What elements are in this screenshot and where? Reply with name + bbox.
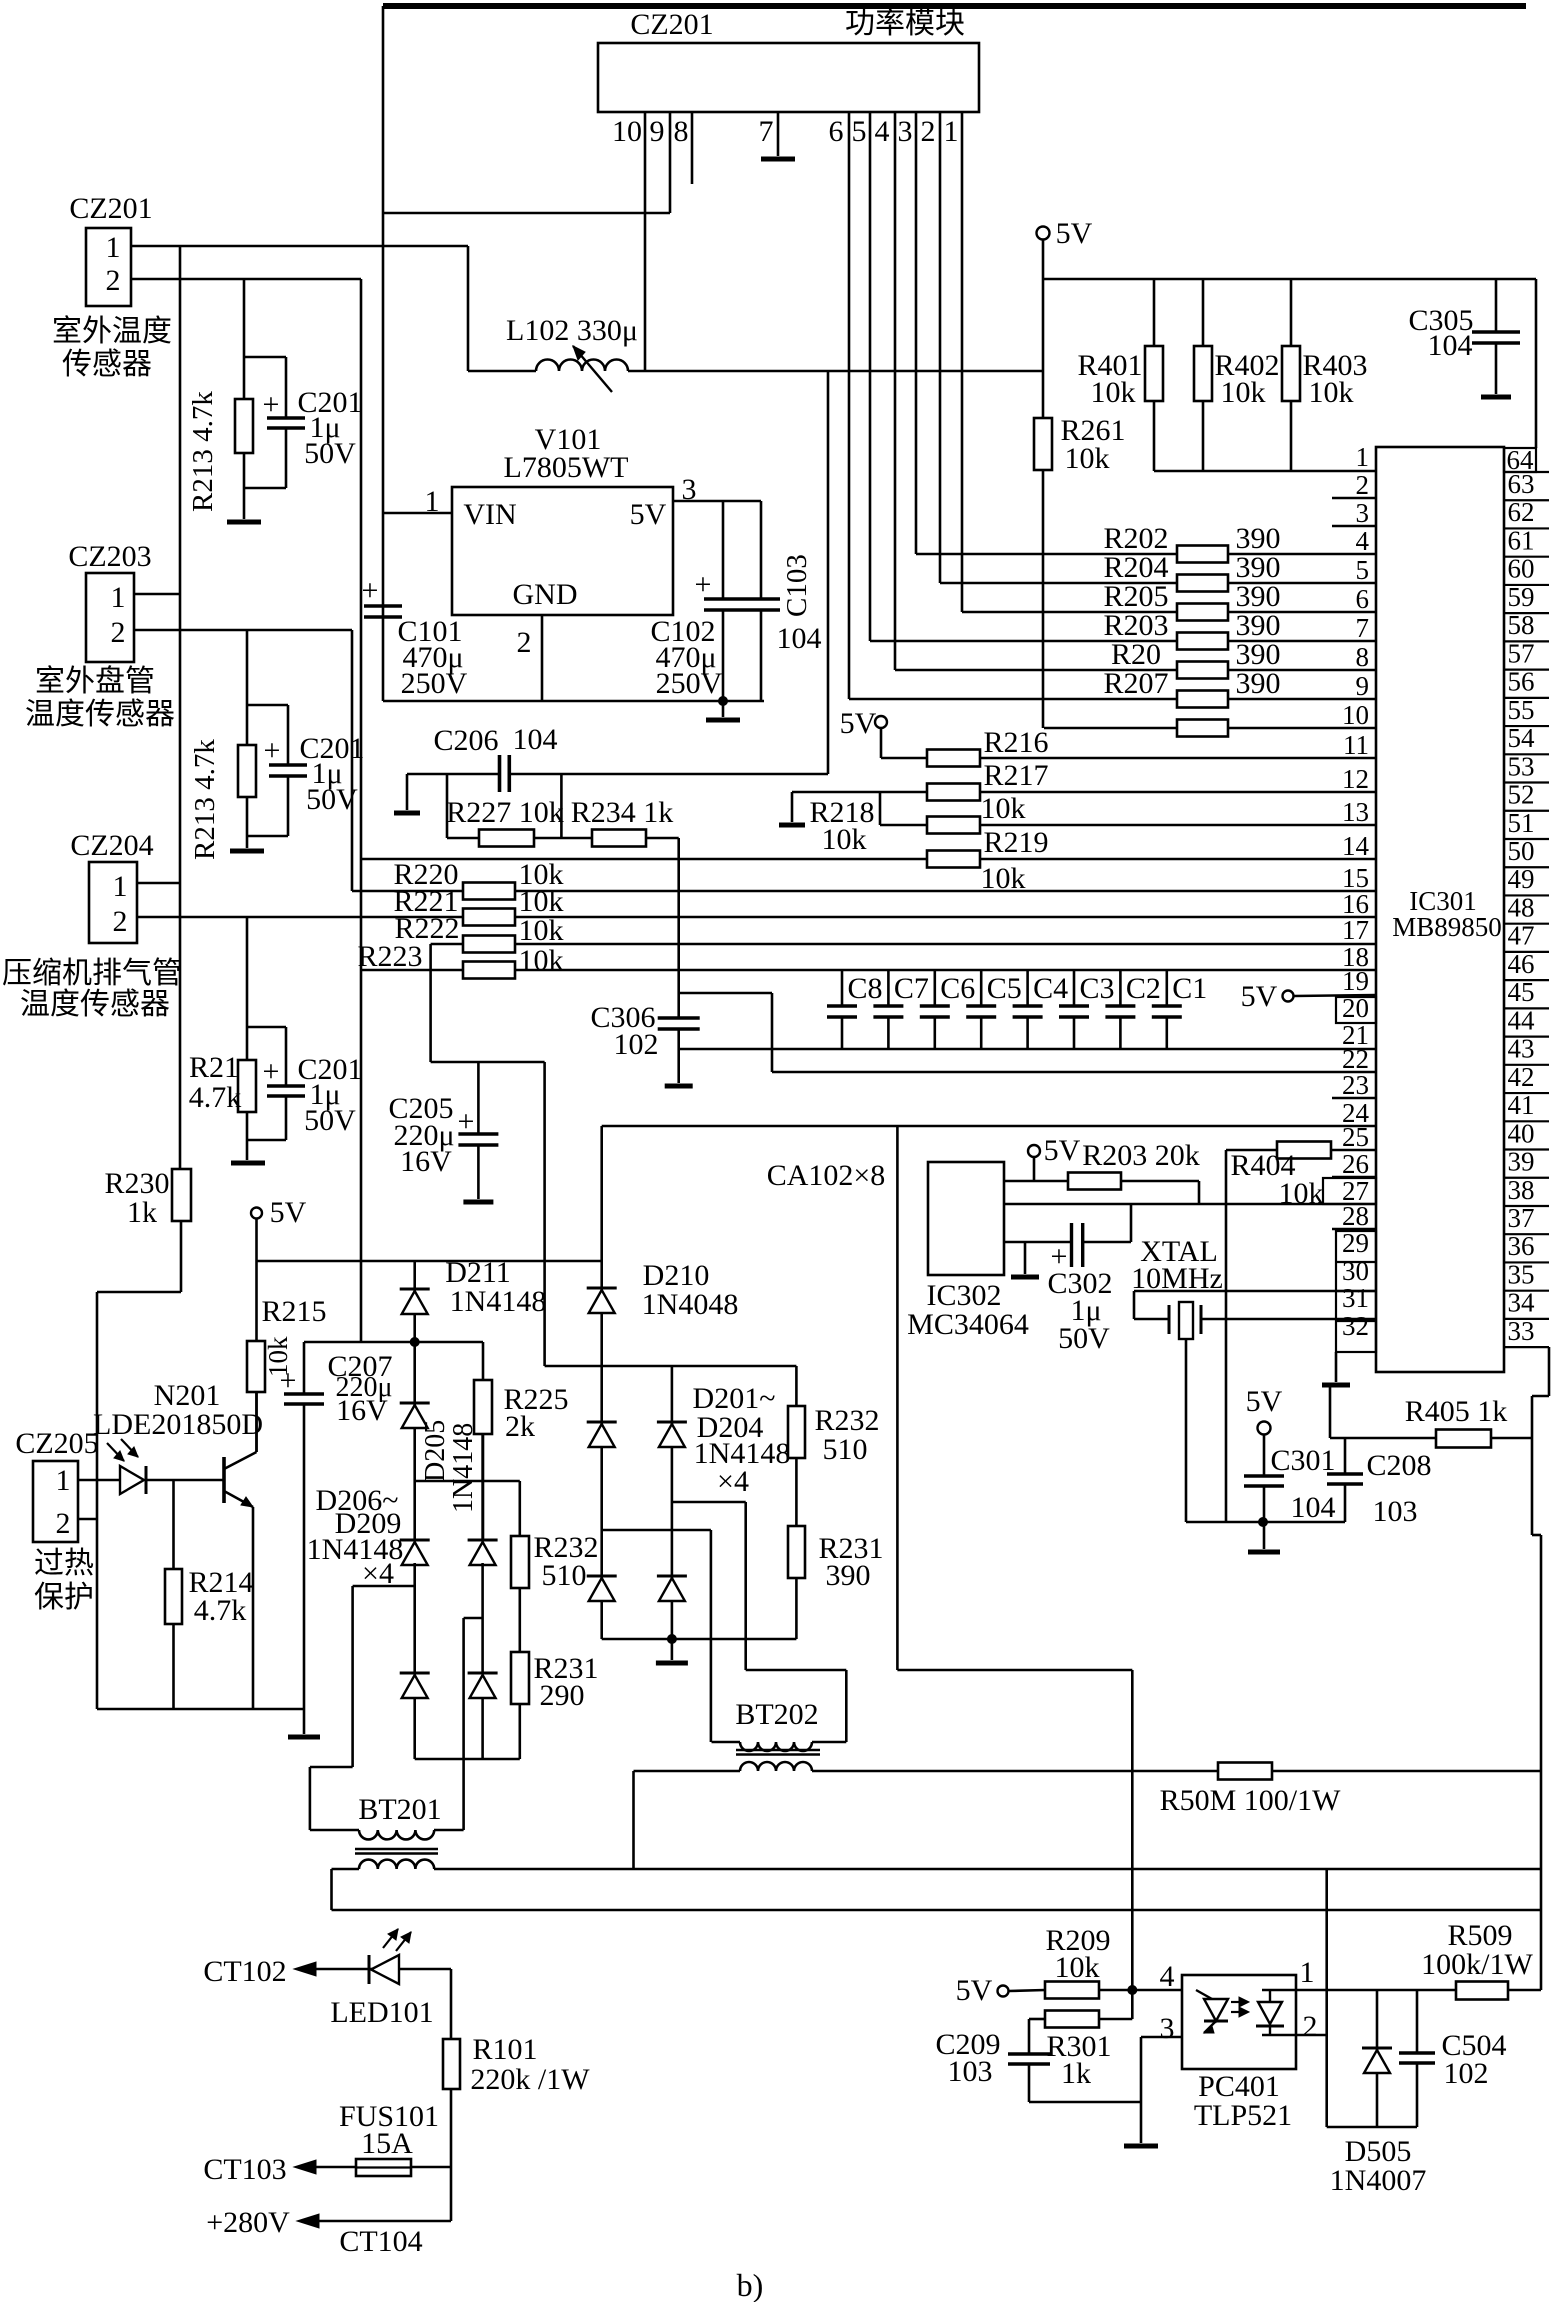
resistor R50M 100/1W (1218, 1763, 1541, 1780)
wire H1 colR2 to BT202 primary right (672, 1502, 846, 1742)
plus sign C207 (280, 1364, 297, 1397)
label R21 4.7k (189, 1051, 242, 1114)
resistor R232 510 (left) (511, 1481, 529, 1652)
resistor R222 10k (431, 936, 1376, 953)
wire 5V rail to D210 (257, 1260, 602, 1263)
connector CZ205 overheat (33, 1461, 78, 1542)
svg-text:28: 28 (1342, 1201, 1369, 1231)
resistor R219 10k long row from CZ201 pin2 (361, 851, 1376, 868)
svg-text:VIN: VIN (463, 498, 516, 531)
label C205 220u 16V (388, 1092, 454, 1178)
svg-text:+: + (362, 574, 379, 607)
svg-text:2: 2 (56, 1507, 71, 1540)
diode D208 (col1 row2) (400, 1673, 430, 1759)
wire CZ205 pin2 down (78, 1518, 97, 1521)
wire CZ201 pin1 to L102 drop (131, 245, 468, 248)
label R234 1k (571, 796, 674, 829)
svg-text:12: 12 (1342, 764, 1369, 794)
plus sign C101 (362, 574, 379, 607)
svg-text:10k: 10k (981, 792, 1026, 825)
label C207 220u 16V (327, 1350, 392, 1427)
crystal XTAL wires (1134, 1291, 1376, 1319)
resistor R217 (792, 784, 1376, 801)
resistor R232 510 (right) (788, 1366, 805, 1526)
wire 5V bus to pin64 (1043, 279, 1536, 448)
wire C207 top rail to R225 (304, 1341, 483, 1344)
svg-text:2: 2 (517, 626, 532, 659)
ground IC301 pin 29-32 block (1322, 1352, 1350, 1385)
svg-text:52: 52 (1508, 780, 1535, 810)
svg-text:104: 104 (1291, 1491, 1336, 1524)
wire PC401 pin3 ground (1141, 2037, 1182, 2143)
diode D204 (colR2 rowB) (657, 1576, 687, 1601)
svg-text:37: 37 (1508, 1203, 1535, 1233)
label R509 100k/1W (1421, 1919, 1533, 1981)
photodiode N201 LED with arrows (78, 1439, 224, 1494)
svg-text:R223: R223 (357, 940, 422, 973)
svg-text:5: 5 (1356, 555, 1370, 585)
resistor R209 10k (1045, 1982, 1182, 1999)
diode D505 1N4007 (1362, 1990, 1392, 2127)
svg-text:45: 45 (1508, 977, 1535, 1007)
wire pin10 of CZ201 to L102 node (644, 112, 647, 371)
wire BT201 secondary rail (434, 1868, 1541, 1871)
svg-text:104: 104 (513, 723, 558, 756)
crystal XTAL symbol (1169, 1302, 1201, 1522)
svg-text:C6: C6 (940, 972, 975, 1005)
svg-text:102: 102 (1444, 2057, 1489, 2090)
wire PC401 pin1 to R509 (1296, 1989, 1456, 1992)
label R402 10k (1214, 349, 1279, 409)
svg-text:保护: 保护 (34, 1581, 94, 1614)
svg-text:GND: GND (513, 578, 578, 611)
svg-text:C5: C5 (987, 972, 1022, 1005)
label +280V CT104 with arrow (206, 2206, 451, 2258)
svg-text:34: 34 (1508, 1288, 1536, 1318)
ground C305 (1481, 395, 1511, 400)
svg-text:6: 6 (829, 115, 844, 148)
svg-text:10k: 10k (1309, 376, 1354, 409)
svg-text:38: 38 (1508, 1175, 1535, 1205)
resistor R231 290 (left) (511, 1652, 529, 1759)
svg-text:50V: 50V (306, 783, 358, 816)
terminal 5V C301 (1246, 1385, 1283, 1476)
svg-text:4.7k: 4.7k (194, 1594, 247, 1627)
label R219 10k (981, 826, 1049, 895)
wire pin2 to R204 row (940, 112, 1177, 583)
capacitor C306 102 (658, 838, 700, 1083)
svg-text:4: 4 (1356, 526, 1370, 556)
svg-text:250V: 250V (656, 667, 723, 700)
resistor R215 10k (247, 1341, 265, 1452)
resistor R221 10k (463, 909, 1376, 926)
svg-text:+: + (263, 1055, 280, 1088)
capacitor C301 104 (1244, 1476, 1284, 1549)
svg-text:58: 58 (1508, 610, 1535, 640)
svg-text:50V: 50V (304, 437, 356, 470)
label CZ203 (68, 540, 151, 573)
ground C301 (1248, 1550, 1280, 1555)
svg-text:61: 61 (1508, 525, 1535, 555)
IC301 left pin stubs (1332, 498, 1376, 1229)
terminal 5V top (1037, 217, 1093, 279)
ground colR2 (656, 1639, 688, 1663)
label C208 103 (1366, 1449, 1431, 1528)
plus sign C205 (458, 1105, 475, 1138)
resistor R230 1k (97, 1169, 191, 1709)
svg-text:1N4048: 1N4048 (642, 1288, 739, 1321)
ground R21 (231, 1161, 265, 1166)
ground C306 (665, 1084, 693, 1089)
label C101 470u 250V (397, 615, 467, 700)
junction wire C206 to R227 right (560, 774, 563, 838)
label BT202 (735, 1698, 818, 1731)
wire pin24 row to diode column (602, 1125, 1376, 1128)
IC301 pin20 box (1336, 997, 1376, 1023)
wire tee D205 to R232 left group (415, 1480, 520, 1483)
svg-text:2: 2 (111, 616, 126, 649)
svg-text:36: 36 (1508, 1231, 1535, 1261)
plus sign C102 (695, 568, 712, 601)
svg-text:C8: C8 (847, 972, 882, 1005)
ground R213 upper (227, 520, 261, 525)
resistor R401 10k (1145, 279, 1163, 471)
label C201 middle values (299, 732, 364, 816)
label R209 10k (1045, 1924, 1110, 1984)
wire pin9 of CZ201 to left loop (383, 112, 670, 213)
plus sign C201 lower (263, 1055, 280, 1088)
svg-text:传感器: 传感器 (62, 348, 152, 381)
svg-text:29: 29 (1342, 1228, 1369, 1258)
capacitor C205 220u 16V (458, 1062, 498, 1199)
label C201 1u 50V upper (297, 386, 362, 470)
svg-text:59: 59 (1508, 582, 1535, 612)
label R215 10k rotated (261, 1295, 326, 1377)
svg-text:17: 17 (1342, 915, 1369, 945)
label R223 10k (357, 940, 563, 977)
svg-text:47: 47 (1508, 921, 1535, 951)
svg-text:R213 4.7k: R213 4.7k (187, 391, 219, 512)
svg-text:1k: 1k (1061, 2057, 1091, 2090)
label R401 10k (1077, 349, 1142, 409)
svg-text:1N4007: 1N4007 (1330, 2164, 1427, 2197)
svg-text:过热: 过热 (34, 1547, 94, 1580)
wire keyboard loop down to PC401 node (897, 1126, 1132, 1990)
label C206 104 (433, 723, 557, 757)
wire IC302 pin3 with C302 (1004, 1204, 1131, 1242)
junction dot C102 ground (719, 697, 728, 706)
label R231 390 right (818, 1532, 883, 1592)
terminal 5V IC302 (1028, 1134, 1081, 1181)
svg-text:60: 60 (1508, 554, 1535, 584)
resistor R213 4.7k (middle) (238, 630, 256, 848)
resistor R231 390 (right) (788, 1526, 805, 1639)
label R101 220k/1W (470, 2033, 590, 2096)
resistor R301 1k (1029, 1990, 1132, 2028)
svg-text:102: 102 (614, 1028, 659, 1061)
svg-text:390: 390 (1236, 667, 1281, 700)
connector CZ204 compressor exhaust temp sensor (89, 862, 137, 943)
label R232 510 left (533, 1531, 598, 1592)
svg-text:D205: D205 (420, 1420, 451, 1482)
plus sign C201 middle (264, 734, 281, 767)
label 室外盘管 温度传感器 (25, 665, 175, 731)
svg-text:1: 1 (106, 231, 121, 264)
capacitor C201 (middle) 1u 50V (247, 705, 307, 836)
svg-text:C7: C7 (894, 972, 929, 1005)
svg-text:+280V: +280V (206, 2206, 290, 2239)
diode D207 (col2 row1) (468, 1434, 498, 1673)
label CA102x8 (767, 1159, 886, 1192)
label CT102 with arrow (203, 1955, 451, 1988)
IC301 left pin numbers 1-32 (1342, 442, 1370, 1341)
pin numbers 10 9 8 7 6 5 4 3 2 1 of power module (612, 115, 959, 148)
svg-text:温度传感器: 温度传感器 (25, 698, 175, 731)
wire common sensor vertical x180 (179, 246, 182, 1169)
svg-text:8: 8 (674, 115, 689, 148)
capacitor C504 102 (1399, 1990, 1435, 2127)
svg-text:BT201: BT201 (358, 1793, 441, 1826)
svg-text:3: 3 (898, 115, 913, 148)
ground C206 left (394, 774, 420, 813)
capacitor C206 104 (407, 755, 828, 792)
svg-text:50: 50 (1508, 836, 1535, 866)
IC301 pin27 box (1323, 1178, 1376, 1204)
svg-text:1: 1 (944, 115, 959, 148)
label XTAL 10MHz (1131, 1235, 1223, 1295)
svg-text:+: + (280, 1364, 297, 1397)
svg-text:TLP521: TLP521 (1194, 2099, 1292, 2132)
svg-text:40: 40 (1508, 1118, 1535, 1148)
svg-text:15A: 15A (361, 2127, 413, 2160)
svg-text:R215: R215 (261, 1295, 326, 1328)
label b) (737, 2267, 764, 2302)
wire CZ204 pin2 = R221 row (137, 916, 463, 919)
label R301 1k (1046, 2030, 1111, 2090)
label R217 10k (981, 759, 1049, 825)
svg-text:R21: R21 (189, 1051, 239, 1084)
PC401 internal LED (1196, 1990, 1228, 2033)
label R50M 100/1W (1160, 1784, 1342, 1817)
ground R213 middle (230, 849, 264, 854)
wire branch col2 to BT201 primary right (464, 1618, 483, 1830)
label C504 102 (1441, 2029, 1506, 2090)
transformer BT202 (634, 1742, 1219, 1771)
resistor R405 1k (1330, 1387, 1532, 1448)
label R213 4.7k rotated middle (189, 739, 221, 860)
svg-text:1N4148: 1N4148 (448, 1423, 479, 1513)
svg-text:16V: 16V (400, 1145, 452, 1178)
wire pin8 stub (691, 112, 694, 184)
ground R217 left (779, 792, 805, 825)
V101 pin numbers 1 3 2 (425, 473, 697, 659)
svg-text:2k: 2k (505, 1410, 535, 1443)
label R216 (983, 726, 1048, 759)
label D211 1N4148 (445, 1256, 546, 1318)
svg-text:390: 390 (826, 1559, 871, 1592)
svg-text:C2: C2 (1126, 972, 1161, 1005)
resistor R21 4.7k (238, 917, 256, 1160)
svg-text:3: 3 (1160, 2012, 1175, 2045)
label R230 1k (104, 1167, 169, 1229)
label 室外温度 传感器 (52, 315, 172, 381)
label D205 1N4148 rotated (420, 1420, 479, 1513)
svg-text:5V: 5V (956, 1974, 993, 2007)
capacitor C201 (lower) 1u 50V (247, 1027, 305, 1140)
diode D211 1N4148 (400, 1261, 430, 1342)
wire right edge net pin33/R405 to R509 (1532, 1438, 1541, 1990)
svg-text:10k: 10k (1055, 1951, 1100, 1984)
label R222 10k (394, 912, 563, 947)
resistor R402 10k (1194, 279, 1212, 471)
capacitor C207 220u 16V (284, 1342, 324, 1709)
resistor R234 1k (592, 830, 679, 847)
capacitor C102 470u 250V (704, 501, 742, 701)
resistor R404 10k (1226, 1142, 1376, 1523)
label R225 2k (503, 1383, 568, 1443)
svg-text:2: 2 (921, 115, 936, 148)
capacitor C103 104 (742, 501, 780, 701)
svg-text:56: 56 (1508, 667, 1535, 697)
label D505 1N4007 (1330, 2135, 1427, 2197)
label PC401 TLP521 (1194, 2070, 1292, 2132)
junction dot colR2 bottom (667, 1635, 676, 1644)
diode D210 1N4048 (587, 1126, 617, 1639)
diode D201 (colR1 rowA) (587, 1422, 617, 1447)
svg-text:C301: C301 (1270, 1444, 1335, 1477)
svg-text:1: 1 (56, 1464, 71, 1497)
svg-text:R101: R101 (472, 2033, 537, 2066)
PC401 internal arrows (1231, 1997, 1249, 2017)
svg-text:b): b) (737, 2267, 764, 2302)
labels C8 C7 C6 C5 C4 C3 C2 C1 (847, 972, 1207, 1005)
connector CZ203 outdoor coil temp sensor (86, 573, 134, 662)
svg-text:C3: C3 (1079, 972, 1114, 1005)
svg-text:R50M 100/1W: R50M 100/1W (1160, 1784, 1342, 1817)
svg-text:10k: 10k (1221, 376, 1266, 409)
svg-text:13: 13 (1342, 797, 1369, 827)
resistor R214 4.7k (165, 1480, 182, 1709)
wire 5V drop x828 (827, 371, 830, 774)
label IC301 MB89850 (1392, 886, 1502, 942)
capacitor C305 104 (1472, 279, 1520, 394)
svg-text:+: + (263, 388, 280, 421)
svg-text:5V: 5V (840, 707, 877, 740)
svg-text:功率模块: 功率模块 (845, 7, 965, 40)
svg-text:5V: 5V (1246, 1385, 1283, 1418)
svg-text:23: 23 (1342, 1070, 1369, 1100)
wire V101 pin2 GND down (541, 615, 544, 701)
svg-text:+: + (458, 1105, 475, 1138)
diode D203 (colR1 rowB) (587, 1576, 617, 1601)
capacitors C8-C1 bank (827, 970, 1182, 1049)
label D201~ D204 1N4148 x4 (693, 1382, 791, 1498)
wire ground rail under V101 (383, 700, 764, 703)
terminal 5V mid (pullup R216) (840, 707, 887, 758)
svg-text:53: 53 (1508, 751, 1535, 781)
svg-text:220k /1W: 220k /1W (470, 2063, 590, 2096)
transformer BT201 (310, 1830, 464, 1869)
wire pin22 link from C306 node (679, 993, 1376, 1072)
label 压缩机排气管 温度传感器 (2, 957, 182, 1021)
svg-text:10k: 10k (519, 944, 564, 977)
label R221 10k (393, 885, 563, 918)
svg-text:10: 10 (612, 115, 642, 148)
label R261 10k (1060, 414, 1125, 475)
resistor R216 10k (881, 750, 1376, 767)
label R403 10k (1302, 349, 1367, 409)
svg-text:R217: R217 (983, 759, 1048, 792)
svg-text:BT202: BT202 (735, 1698, 818, 1731)
optocoupler PC401 TLP521 box (1182, 1975, 1296, 2069)
svg-text:C4: C4 (1033, 972, 1068, 1005)
IC301 pins 29-32 boxed cells (1336, 1231, 1376, 1352)
svg-text:5V: 5V (270, 1196, 307, 1229)
V101 pin text VIN 5V GND (463, 498, 666, 611)
label L102 330u (506, 314, 638, 347)
label R404 10k (1230, 1149, 1323, 1210)
svg-text:C208: C208 (1366, 1449, 1431, 1482)
wire BT202 secondary left down (632, 1771, 635, 1869)
svg-text:7: 7 (1356, 613, 1370, 643)
wire IC302 pin2 to pin27 (1004, 1203, 1376, 1206)
resistor R213 4.7k (upper) (235, 279, 253, 519)
label V101 L7805WT (504, 423, 629, 484)
label R405 1k (1405, 1395, 1508, 1428)
resistor R101 220k/1W (443, 1969, 460, 2221)
svg-text:4.7k: 4.7k (189, 1081, 242, 1114)
svg-text:16V: 16V (336, 1394, 388, 1427)
svg-text:LED101: LED101 (330, 1996, 433, 2029)
label C209 103 (935, 2028, 1000, 2088)
svg-text:室外盘管: 室外盘管 (35, 665, 155, 698)
svg-text:R234 1k: R234 1k (571, 796, 674, 829)
terminal 5V PC401 (956, 1974, 1045, 2007)
svg-text:L7805WT: L7805WT (504, 451, 629, 484)
label CZ201 (power module) (630, 8, 713, 41)
terminal 5V at pin19 (1241, 980, 1376, 1013)
label 过热 保护 (34, 1547, 94, 1614)
svg-text:2: 2 (1303, 2010, 1318, 2043)
label C302 1u 50V (1047, 1267, 1112, 1355)
svg-text:5V: 5V (1044, 1134, 1081, 1167)
svg-text:CZ201: CZ201 (69, 192, 152, 225)
resistor R227 10k (447, 774, 592, 847)
svg-text:5V: 5V (1056, 217, 1093, 250)
svg-text:35: 35 (1508, 1259, 1535, 1289)
wire x546 to R232 right top (545, 1365, 797, 1368)
svg-text:压缩机排气管: 压缩机排气管 (2, 957, 182, 990)
PC401 pin numbers 4 3 1 2 (1160, 1956, 1318, 2045)
wire VIN from x383 (383, 512, 452, 515)
wire pin3 to R202 row (916, 112, 1177, 554)
svg-text:32: 32 (1342, 1311, 1369, 1341)
terminal 5V left (251, 1196, 307, 1341)
svg-text:5V: 5V (1241, 980, 1278, 1013)
svg-text:39: 39 (1508, 1147, 1535, 1177)
label C102 470u 250V (650, 615, 722, 700)
diode D202 (colR2 rowA) (657, 1366, 687, 1639)
capacitor C209 103 (1008, 2019, 1141, 2102)
svg-text:11: 11 (1343, 730, 1369, 760)
label R218 10k (809, 796, 874, 856)
svg-text:CZ201: CZ201 (630, 8, 713, 41)
resistor R218 10k (880, 792, 1376, 834)
label N201 LDE201850D (93, 1379, 263, 1441)
svg-text:250V: 250V (401, 667, 468, 700)
svg-text:30: 30 (1342, 1256, 1369, 1286)
wire ground link line C301 C208 (1186, 1521, 1345, 1524)
